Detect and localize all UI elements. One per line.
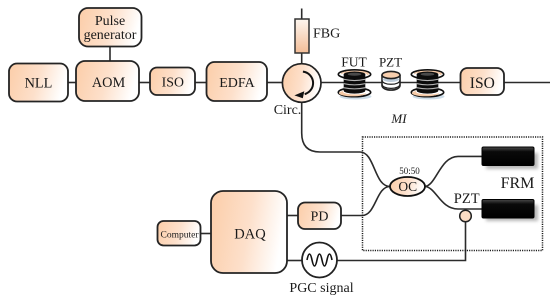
svg-text:PGC signal: PGC signal [289, 281, 353, 296]
svg-text:ISO: ISO [470, 75, 495, 92]
svg-text:NLL: NLL [25, 76, 53, 92]
svg-text:Circ.: Circ. [274, 103, 302, 118]
svg-text:EDFA: EDFA [219, 76, 255, 91]
svg-text:OC: OC [398, 179, 417, 194]
svg-text:ISO: ISO [162, 75, 184, 90]
svg-text:FBG: FBG [313, 27, 340, 42]
svg-text:DAQ: DAQ [234, 227, 266, 243]
svg-text:FRM: FRM [501, 175, 535, 192]
svg-text:Pulse: Pulse [95, 14, 125, 29]
svg-text:PZT: PZT [379, 55, 402, 70]
svg-text:FUT: FUT [341, 55, 367, 70]
svg-text:Computer: Computer [161, 231, 200, 241]
svg-text:PZT: PZT [454, 191, 480, 207]
svg-text:MI: MI [390, 111, 407, 126]
svg-text:generator: generator [84, 28, 137, 43]
svg-text:PD: PD [311, 210, 329, 225]
svg-text:50:50: 50:50 [399, 166, 420, 176]
svg-text:AOM: AOM [92, 75, 126, 91]
